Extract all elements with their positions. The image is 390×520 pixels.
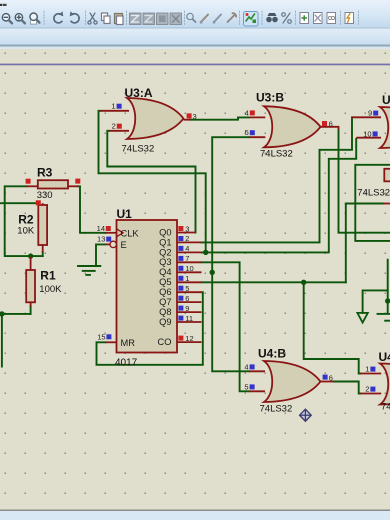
- svg-text:Q8: Q8: [159, 307, 171, 317]
- svg-text:U3:A: U3:A: [125, 86, 153, 100]
- svg-text:12: 12: [185, 334, 193, 343]
- svg-text:74L: 74L: [381, 402, 390, 413]
- svg-text:74LS32: 74LS32: [122, 144, 155, 155]
- svg-text:2: 2: [185, 234, 189, 243]
- svg-text:Q4: Q4: [159, 267, 171, 277]
- svg-text:CLK: CLK: [121, 228, 140, 238]
- svg-text:5: 5: [245, 128, 249, 137]
- svg-text:3: 3: [185, 224, 189, 233]
- svg-text:MR: MR: [121, 338, 136, 348]
- svg-text:4: 4: [244, 362, 248, 371]
- svg-text:U3:B: U3:B: [256, 91, 284, 105]
- svg-text:4: 4: [185, 244, 189, 253]
- svg-text:74LS32: 74LS32: [260, 404, 293, 415]
- svg-text:E: E: [121, 240, 127, 250]
- svg-text:R3: R3: [37, 166, 53, 180]
- svg-text:13: 13: [97, 235, 105, 244]
- svg-text:1: 1: [111, 102, 115, 111]
- svg-text:R1: R1: [40, 269, 56, 283]
- svg-text:100K: 100K: [39, 284, 62, 295]
- svg-text:10: 10: [185, 264, 193, 273]
- svg-text:10K: 10K: [17, 225, 35, 236]
- svg-text:Q7: Q7: [159, 297, 171, 307]
- svg-text:11: 11: [185, 314, 193, 323]
- svg-text:Q6: Q6: [159, 287, 171, 297]
- svg-text:Q5: Q5: [159, 277, 171, 287]
- svg-text:U4:B: U4:B: [258, 347, 286, 361]
- svg-text:6: 6: [329, 373, 333, 382]
- svg-text:5: 5: [244, 382, 248, 391]
- svg-text:74LS32: 74LS32: [260, 149, 293, 160]
- svg-text:Q2: Q2: [159, 247, 171, 257]
- svg-text:Q1: Q1: [159, 237, 171, 247]
- svg-text:1: 1: [185, 274, 189, 283]
- svg-text:3: 3: [193, 112, 197, 121]
- svg-text:5: 5: [185, 284, 189, 293]
- svg-text:330: 330: [37, 190, 53, 201]
- svg-text:10: 10: [363, 129, 371, 138]
- svg-text:74LS32: 74LS32: [357, 188, 390, 199]
- svg-text:U3: U3: [382, 93, 390, 107]
- svg-text:U4: U4: [379, 350, 390, 364]
- svg-text:14: 14: [97, 224, 105, 233]
- svg-text:Q9: Q9: [159, 317, 171, 327]
- svg-text:2: 2: [112, 122, 116, 131]
- svg-text:6: 6: [185, 294, 189, 303]
- svg-text:15: 15: [97, 333, 105, 342]
- svg-text:7: 7: [185, 254, 189, 263]
- svg-text:4: 4: [245, 108, 249, 117]
- svg-text:1: 1: [365, 365, 369, 374]
- svg-text:9: 9: [185, 304, 189, 313]
- svg-text:4017: 4017: [115, 358, 138, 369]
- svg-text:2: 2: [365, 385, 369, 394]
- svg-text:Q3: Q3: [159, 257, 171, 267]
- svg-text:6: 6: [329, 119, 333, 128]
- svg-text:Q0: Q0: [159, 227, 171, 237]
- svg-text:U1: U1: [117, 207, 133, 221]
- svg-text:9: 9: [368, 109, 372, 118]
- svg-text:CO: CO: [158, 337, 172, 347]
